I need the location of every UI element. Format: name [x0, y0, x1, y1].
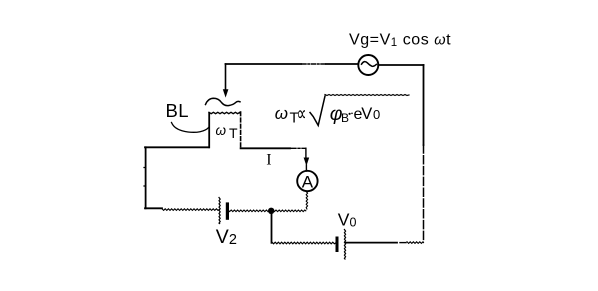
- wire ammeter bottom lead: [306, 192, 307, 210]
- wire corner down toward ammeter with arrowhead: [305, 148, 307, 158]
- leader from BL to mesa: [172, 123, 209, 133]
- svg-text:T: T: [229, 125, 238, 141]
- wire from AC source to right vertical: [378, 64, 423, 66]
- svg-text:∝: ∝: [297, 102, 307, 126]
- wire bottom right from V0 battery to right vertical: [346, 242, 398, 244]
- wire right vertical: [423, 65, 425, 145]
- wire left vertical: [145, 147, 147, 208]
- svg-text:BL: BL: [166, 100, 189, 121]
- junction node dot: [268, 208, 274, 214]
- wire bottom left horizontal with battery V2: [145, 207, 162, 209]
- ac source Vg: [358, 55, 378, 75]
- svg-text:ω: ω: [275, 104, 288, 123]
- wire right step horizontal from mesa to ammeter corner: [241, 147, 290, 149]
- svg-text:I: I: [266, 152, 271, 169]
- svg-text:A: A: [302, 172, 314, 191]
- svg-text:0: 0: [373, 107, 380, 122]
- wavy surface above mesa: [206, 98, 241, 105]
- wire top horizontal from mesa arrow corner to AC source: [226, 63, 302, 65]
- svg-text:V: V: [361, 105, 372, 123]
- mesa barrier right edge (dashed): [240, 112, 242, 148]
- svg-text:B: B: [341, 111, 349, 125]
- svg-text:Vg=V1 cos ωt: Vg=V1 cos ωt: [349, 32, 451, 50]
- radical sign: [310, 96, 325, 125]
- svg-text:V0: V0: [338, 209, 357, 229]
- battery V2 (long plate left, short plate right): [219, 198, 227, 224]
- wire left step horizontal to mesa: [145, 146, 209, 148]
- wire from junction down then right to battery V0: [271, 213, 273, 243]
- svg-text:V2: V2: [216, 226, 237, 248]
- mesa barrier top edge: [209, 112, 240, 113]
- wire arrow into mesa top (gate drive): [225, 64, 227, 90]
- formula wT proportional sqrt(phiB eV0): [275, 95, 409, 127]
- ammeter A: [297, 171, 317, 192]
- svg-text:ω: ω: [216, 123, 227, 138]
- battery V0 (short plate left, long plate right): [337, 230, 346, 260]
- mesa barrier left edge: [208, 113, 210, 147]
